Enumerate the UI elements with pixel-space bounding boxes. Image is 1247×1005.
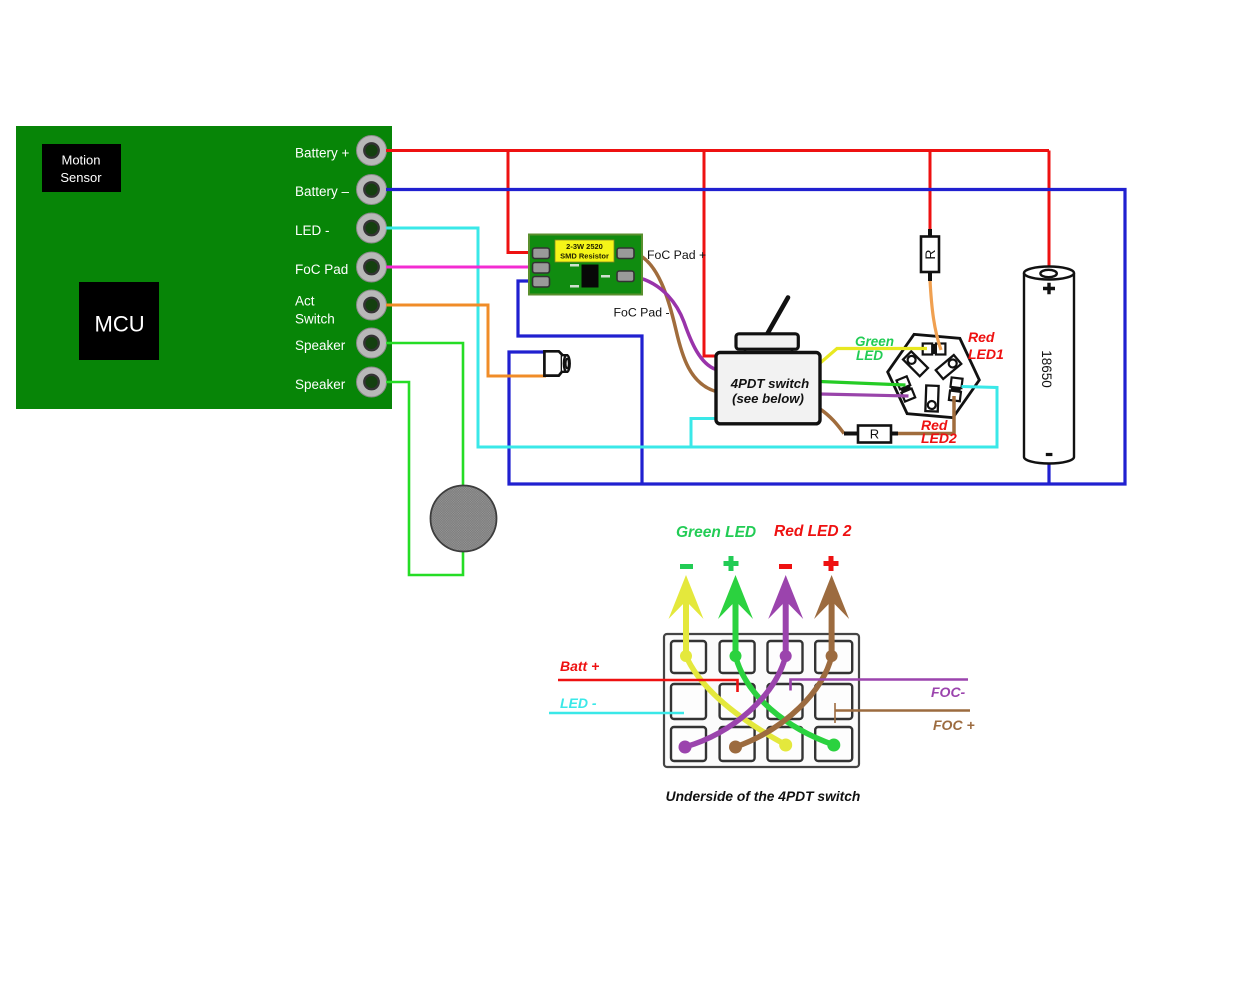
wire battery- blue from battery bottom [1047, 461, 1050, 484]
star pad pair top (green LED pads) [923, 344, 946, 355]
battery 18650 BT1 [1024, 267, 1074, 464]
arrow purple (Red LED 2 -) [768, 575, 803, 656]
switch underside body [664, 634, 859, 767]
wire FoC+ brown SMD to switch [634, 253, 716, 392]
switch body [716, 353, 820, 424]
pad Act Switch [357, 290, 387, 320]
LED package upper-left [903, 351, 928, 376]
pad SMD left 3 [533, 277, 550, 288]
svg-text:Act: Act [295, 293, 315, 308]
svg-text:Speaker: Speaker [295, 377, 346, 392]
wire battery+ red drop to battery top [1048, 151, 1051, 269]
underside diagram of 4PDT switch [549, 523, 975, 804]
wire battery+ red main run pad to battery [386, 149, 1049, 152]
jumper green [736, 656, 835, 745]
wire orange R1 to star red-LED1 pad [930, 280, 941, 350]
4PDT switch S1 [716, 298, 820, 424]
svg-text:Green: Green [855, 334, 894, 349]
svg-text:(see below): (see below) [732, 391, 804, 406]
svg-text:R: R [922, 249, 938, 259]
svg-text:Green LED: Green LED [676, 524, 756, 541]
pad Battery - [357, 175, 387, 205]
switch cap [736, 334, 798, 349]
svg-text:Red: Red [968, 329, 995, 345]
tri-LED star PCB [884, 332, 983, 419]
svg-text:LED -: LED - [295, 223, 330, 238]
star pad pair lower-left (red LED pads) [897, 376, 916, 401]
svg-text:LED1: LED1 [968, 346, 1004, 362]
wire LED- cyan branch to 4PDT switch [691, 419, 717, 448]
sign minus red [779, 564, 792, 569]
wire FoC- purple SMD to switch [634, 277, 716, 370]
svg-text:Batt +: Batt + [560, 658, 599, 674]
svg-text:FOC-: FOC- [931, 684, 966, 700]
pad FoC Pad [357, 252, 387, 282]
wire yellow switch to star green-LED pad [819, 349, 927, 365]
svg-text:LED -: LED - [560, 695, 597, 711]
LED package bottom [925, 385, 938, 411]
recharge port / kill switch [544, 351, 569, 375]
speaker SP1 [431, 486, 497, 552]
wire act switch orange [386, 305, 546, 376]
LED package upper-right [936, 355, 962, 379]
wire purple switch to star [820, 394, 909, 396]
wire LED- cyan run board to star [386, 228, 997, 447]
svg-text:LED2: LED2 [921, 430, 957, 446]
arrow brown (Red LED 2 +) [814, 575, 849, 656]
switch underside terminals grid [671, 641, 852, 761]
svg-text:LED: LED [856, 348, 883, 363]
svg-text:Speaker: Speaker [295, 338, 346, 353]
svg-text:18650: 18650 [1039, 350, 1054, 388]
svg-text:Switch: Switch [295, 311, 335, 326]
wire green switch to star [820, 382, 906, 386]
wire battery+ red branch to resistor R1 [929, 151, 932, 232]
svg-text:Underside of the 4PDT switch: Underside of the 4PDT switch [666, 789, 861, 804]
wire FOC + brown (bottom) [835, 709, 970, 712]
switch bushing [745, 349, 792, 358]
sign plus green [724, 556, 739, 571]
arrow yellow (Green LED -) [669, 575, 704, 656]
jumper purple [685, 656, 786, 747]
wire battery- blue main loop [386, 190, 1125, 485]
resistor R1 [921, 229, 939, 281]
svg-text:Battery –: Battery – [295, 184, 350, 199]
svg-text:R: R [870, 427, 879, 442]
svg-text:MCU: MCU [95, 312, 145, 337]
wire brown switch to resistor R2 [820, 409, 844, 434]
svg-text:Battery +: Battery + [295, 145, 350, 160]
svg-text:FoC Pad +: FoC Pad + [647, 248, 706, 262]
svg-text:FoC Pad -: FoC Pad - [614, 306, 670, 320]
wire Batt + red (bottom) [558, 680, 738, 692]
arrow green (Green LED +) [718, 575, 753, 656]
switch lever [768, 298, 789, 334]
wire LED - cyan (bottom) [549, 712, 684, 715]
wire speaker green loop [386, 343, 463, 575]
wire FOC- purple (bottom) [791, 680, 969, 691]
wire battery- blue branch to SMD board pad [518, 281, 642, 484]
sign plus red [824, 556, 839, 571]
star pad pair lower-right (red LED2 pads) [949, 377, 963, 401]
pad SMD left 1 [533, 248, 550, 259]
pad SMD right 1 [617, 248, 634, 259]
motion sensor chip [42, 144, 121, 192]
resistor R2 [844, 426, 898, 443]
pad LED - [357, 213, 387, 243]
jumper brown [736, 656, 832, 747]
svg-text:FOC +: FOC + [933, 717, 975, 733]
pad Speaker 2 [357, 367, 387, 397]
soundboard PCB [16, 126, 392, 409]
svg-text:SMD Resistor: SMD Resistor [560, 252, 609, 261]
wire FoC pad magenta [386, 266, 534, 269]
svg-text:4PDT switch: 4PDT switch [730, 376, 809, 391]
svg-text:FoC Pad: FoC Pad [295, 262, 348, 277]
wire brown R2 to star red-LED2 pad [897, 396, 954, 434]
jumper yellow [686, 656, 786, 745]
wire battery+ red branch to SMD resistor board [508, 151, 534, 253]
svg-text:Sensor: Sensor [60, 170, 102, 185]
sign minus green [680, 564, 693, 569]
pad Battery + [357, 136, 387, 166]
MCU chip U1 [79, 282, 159, 360]
pad SMD right 2 [617, 271, 634, 282]
SMD resistor board R3 [529, 235, 642, 295]
wire battery+ red branch to 4PDT switch [704, 151, 717, 357]
svg-text:Red LED 2: Red LED 2 [774, 523, 852, 540]
pad Speaker 1 [357, 328, 387, 358]
pad SMD left 2 [533, 263, 550, 274]
star hexagon outline [884, 332, 983, 419]
svg-text:Motion: Motion [61, 153, 100, 168]
svg-text:2-3W 2520: 2-3W 2520 [566, 242, 603, 251]
